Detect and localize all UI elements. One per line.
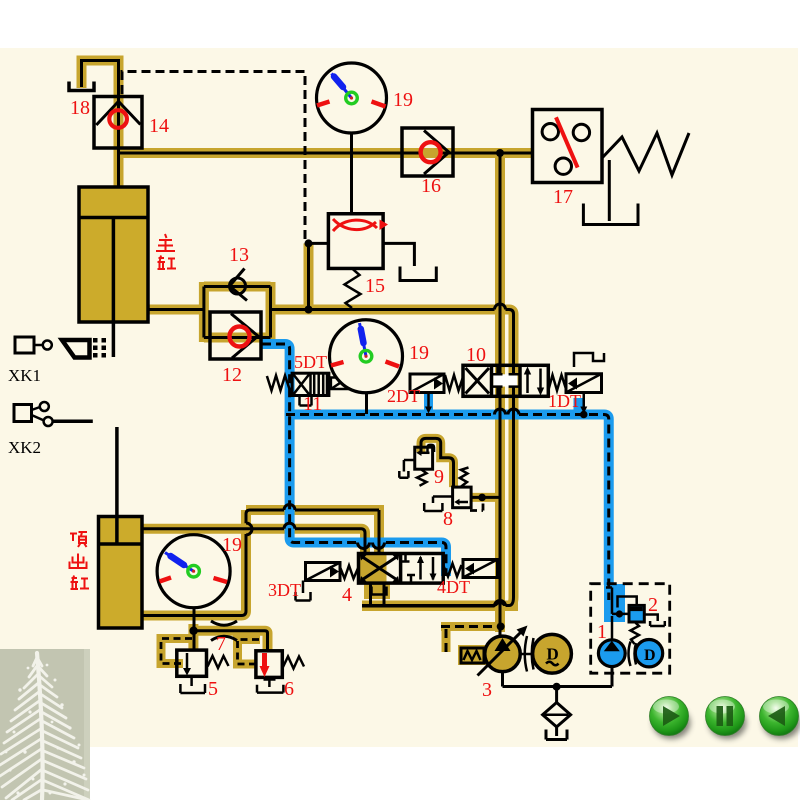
wire: riser and pilot node to valve15 — [305, 239, 329, 309]
pipe gold: main cylinder side port — [148, 305, 204, 315]
svg-text:3: 3 — [482, 679, 492, 701]
label 1 — [597, 621, 607, 643]
electric motor 2 — [635, 640, 662, 667]
filter — [543, 687, 571, 740]
ground: filler tank 18 — [69, 82, 94, 91]
wire: cylinder port to ring12 — [148, 308, 204, 311]
wire: valve14 to cylinder — [117, 92, 120, 188]
wire: valve15 drain to tank — [383, 243, 414, 266]
pipe blue: pump1 pilot block patch — [604, 584, 625, 622]
wire: 3DT drain — [296, 581, 311, 601]
svg-text:9: 9 — [434, 466, 444, 488]
svg-text:2: 2 — [648, 594, 658, 616]
wire: top gauge stem — [350, 133, 353, 214]
wire: dashed pilot loop valve5 — [161, 639, 192, 664]
wire: manifold under valve4 with jump over pipe A — [362, 601, 506, 607]
label 3 — [482, 679, 492, 701]
pipe blue: pilot from valve12 down and across to valve4 — [261, 344, 446, 576]
solenoid coil 5DT — [331, 378, 348, 390]
label 6 — [284, 678, 294, 700]
wire: valve12 pilot dashed overlay — [262, 344, 446, 576]
wire: 2DT drain arrow — [425, 393, 432, 414]
wire: ring12 outline — [204, 287, 271, 338]
pause button — [706, 697, 747, 740]
label ding chu gang ejector cylinder chinese — [70, 532, 90, 589]
pipe gold: pipe1 inside valve4 — [363, 510, 387, 583]
pipe blue: 2DT drain stub — [424, 393, 433, 415]
play button — [650, 697, 691, 740]
solenoid valve 11 body — [292, 373, 329, 395]
svg-text:3DT: 3DT — [268, 580, 301, 600]
electric motor 3 — [533, 634, 572, 673]
label 15 — [365, 275, 385, 297]
pilot relief valve 2 — [606, 588, 665, 645]
svg-text:XK1: XK1 — [8, 366, 41, 385]
label 5 — [208, 678, 218, 700]
svg-text:13: 13 — [229, 244, 249, 266]
label zhu gang main cylinder chinese — [156, 234, 176, 269]
check valve 13 — [230, 269, 248, 301]
wire: pump suction manifold — [503, 666, 613, 691]
main cylinder (zhu gang) — [79, 187, 148, 357]
label 3DT — [268, 580, 301, 600]
label 2DT — [387, 386, 420, 406]
pipe gold: valve14 to main cylinder — [114, 92, 124, 188]
electrical lead 1DT — [574, 353, 604, 367]
wire: ejector pipe2 with jump — [142, 523, 365, 553]
label 18 — [70, 97, 90, 119]
wire: rail1 right segment with junction — [442, 149, 533, 157]
svg-text:19: 19 — [393, 89, 413, 111]
drain bracket valve 11 — [300, 396, 312, 406]
label 19 bottom — [222, 534, 242, 556]
spring of valve 11 — [267, 376, 290, 391]
wire: gauge drop line junction — [189, 607, 197, 651]
svg-text:18: 18 — [70, 97, 90, 119]
label 12 — [222, 364, 242, 386]
spring right of valve 10 — [548, 375, 566, 391]
label 10 — [466, 344, 486, 366]
pipe blue: 1DT drain stub — [574, 398, 583, 415]
label 7 — [216, 633, 226, 655]
pipe gold: pilot loop valve6 — [238, 640, 261, 665]
pipe gold: valve4 drain stubs patch — [364, 583, 390, 599]
relief valve 6 — [256, 651, 304, 693]
svg-text:10: 10 — [466, 344, 486, 366]
label 11 — [303, 393, 322, 415]
label 8 — [443, 508, 453, 530]
pipe gold: tank18 loop — [82, 61, 119, 97]
svg-text:6: 6 — [284, 678, 294, 700]
pilot operated valve 12 — [210, 312, 261, 359]
label 17 — [553, 186, 573, 208]
label 13 — [229, 244, 249, 266]
spring of pressure relay 17 — [602, 133, 689, 175]
pipe gold: ejector bottom port pipe1 — [142, 510, 379, 616]
wire: valve8 pilot dashes — [470, 500, 483, 511]
pump3 compensator box — [461, 648, 484, 663]
svg-text:17: 17 — [553, 186, 573, 208]
label 4 — [342, 584, 352, 606]
throttle valve 15 — [328, 214, 388, 269]
pipe blue: pilot rail y414 and drop to pump1 — [285, 415, 609, 586]
ground: tank below valve15 — [400, 267, 436, 281]
label 1DT — [548, 391, 581, 411]
pressure gauge 19 middle — [330, 320, 403, 414]
pipe gold: manifold under valve4 — [362, 601, 518, 611]
pressure gauge 19 top — [317, 63, 387, 133]
wire: relay17 drain — [608, 160, 611, 221]
pipe gold: valve8 outlet to pipe A — [471, 493, 498, 502]
relief valve 5 — [177, 650, 229, 693]
hydraulic pump 1 — [598, 616, 625, 687]
wire: valves 9-8 supply black line — [421, 438, 454, 487]
limit switch XK1 — [15, 337, 106, 358]
wire: rail2 with jump over pipe A — [271, 304, 514, 606]
ground: tank below relay17 — [583, 204, 638, 225]
pressure relay 17 — [533, 110, 603, 183]
wire: valve8 outlet line — [471, 494, 499, 502]
label 16 — [421, 175, 441, 197]
svg-text:1DT: 1DT — [548, 391, 581, 411]
label 5DT — [294, 352, 327, 372]
solenoid coil 2DT — [410, 374, 444, 393]
pipe gold: gauge line to valves 5 6 7 — [193, 624, 267, 651]
label 19 middle — [409, 342, 429, 364]
pipe gold: bypass ring around valve12 — [204, 282, 271, 342]
relief valve 9 — [399, 447, 432, 486]
pipe gold: rail2 y309 and pipe B down — [271, 310, 514, 606]
pipe gold: pump compensator pilot — [441, 627, 498, 666]
svg-text:5: 5 — [208, 678, 218, 700]
solenoid coil 1DT — [566, 374, 602, 393]
wire: rail1 left segment — [120, 152, 421, 155]
limit switch XK2 — [14, 402, 93, 426]
label 14 — [149, 115, 169, 137]
solenoid coil 4DT — [463, 560, 498, 578]
svg-text:14: 14 — [149, 115, 169, 137]
spring valve4 right — [444, 564, 462, 577]
wire: tank18 pipe outline — [82, 61, 119, 97]
svg-text:7: 7 — [216, 633, 226, 655]
label 9 — [434, 466, 444, 488]
svg-text:4DT: 4DT — [437, 577, 470, 597]
variable pump 3 — [478, 626, 528, 676]
wire: compensator dashed pilot — [441, 627, 494, 653]
wire: line through throttle7 to valve6 — [194, 631, 268, 651]
wire: dashed pilot loop valve6 — [238, 640, 260, 665]
svg-text:11: 11 — [303, 393, 322, 415]
wire: 1DT drain arrow — [580, 393, 588, 419]
svg-text:12: 12 — [222, 364, 242, 386]
svg-text:4: 4 — [342, 584, 352, 606]
decorative leaf image bottom left — [0, 649, 90, 800]
svg-text:5DT: 5DT — [294, 352, 327, 372]
throttle 7 arcs — [211, 621, 237, 641]
svg-text:D: D — [644, 647, 656, 664]
wire: pipe A pump3 riser — [497, 153, 505, 637]
label 4DT — [437, 577, 470, 597]
wire: valve4 drain stubs — [371, 583, 385, 606]
wire: pilot dashed from valve14 to valve15 — [122, 72, 305, 244]
ground: tank bracket under valve4 — [372, 587, 387, 595]
wire: blue pilot rail dashed overlay with jumps — [286, 409, 609, 600]
svg-text:2DT: 2DT — [387, 386, 420, 406]
ejector cylinder (ding chu gang) — [99, 427, 143, 628]
svg-text:19: 19 — [409, 342, 429, 364]
directional valve 10 body — [463, 365, 548, 396]
spring of valve15 — [345, 268, 361, 308]
label XK1 — [8, 366, 41, 385]
prefill valve 14 — [94, 97, 142, 149]
coupling pump3 motor3 — [521, 636, 534, 672]
pipe gold: valves 9 and 8 supply loop — [421, 438, 454, 487]
label 19 top — [393, 89, 413, 111]
label 2 — [648, 594, 658, 616]
wire: ejector pipe1 with jumps — [142, 505, 379, 616]
coupling pump1 motor2 — [629, 642, 637, 667]
svg-text:16: 16 — [421, 175, 441, 197]
pipe gold: pump3 outlet riser pipe A x500 — [495, 153, 505, 632]
directional valve 4 body — [359, 554, 444, 584]
svg-text:8: 8 — [443, 508, 453, 530]
pressure gauge 19 bottom — [157, 535, 230, 630]
back button — [760, 697, 800, 740]
pump group dashed enclosure — [591, 584, 670, 674]
svg-text:1: 1 — [597, 621, 607, 643]
relief valve 8 — [424, 468, 471, 512]
pipe gold: pilot loop valve5 — [161, 639, 193, 664]
check valve 16 — [402, 128, 453, 176]
pipe gold: riser to valve15 — [304, 243, 314, 309]
svg-text:19: 19 — [222, 534, 242, 556]
pipe gold: ejector top port pipe2 — [142, 529, 365, 583]
svg-text:15: 15 — [365, 275, 385, 297]
label XK2 — [8, 438, 41, 457]
spring 3DT to valve4 — [340, 566, 359, 579]
svg-text:XK2: XK2 — [8, 438, 41, 457]
spring left of valve 10 — [445, 375, 463, 391]
solenoid coil 3DT — [306, 563, 341, 581]
pipe gold: main pressure rail y153 (14 to 16 to 17) — [120, 148, 533, 158]
